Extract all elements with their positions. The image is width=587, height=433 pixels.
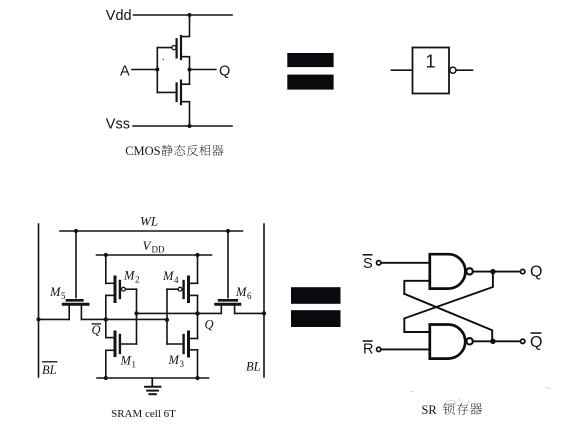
wire M3 drain stub [190, 338, 198, 340]
word line WL [60, 230, 243, 232]
svg-text:1: 1 [425, 51, 435, 71]
ground rail [97, 377, 209, 379]
Vdd rail [134, 14, 233, 16]
logic gate body (1) [413, 48, 450, 94]
svg-text:Q: Q [219, 63, 230, 79]
faint watermark smudge [410, 387, 551, 406]
transistor M6 channel bar [216, 303, 240, 306]
input terminal Sbar [377, 261, 381, 265]
svg-text:3: 3 [180, 359, 185, 369]
wire left inverter rail lower [105, 350, 107, 378]
transistor M5 gate bar [67, 299, 82, 302]
node junction ground left [104, 376, 108, 380]
transistor NMOS N1 channel bar [180, 81, 182, 105]
transistor PMOS P1 channel bar [180, 36, 182, 59]
wire M4 drain stub [190, 294, 198, 296]
svg-text:Q: Q [205, 318, 214, 332]
svg-text:M: M [162, 269, 174, 283]
svg-text:BL: BL [246, 359, 261, 373]
svg-text:2: 2 [135, 275, 140, 285]
node junction WL-M6 [226, 229, 230, 233]
output terminal Qbar [521, 339, 525, 343]
node junction right gates to Qbar line [165, 318, 169, 322]
wire node Q line right segment [235, 312, 264, 314]
wire M2 drain stub [106, 294, 114, 296]
wire Sbar input [382, 262, 430, 264]
wire M6 left stub [220, 306, 222, 314]
node junction BL [262, 311, 266, 315]
svg-text:BL: BL [42, 363, 57, 377]
transistor M1 channel bar [114, 332, 117, 356]
NAND gate U1 bubble [466, 268, 472, 274]
Vss rail [133, 125, 232, 127]
transistor M4 gate bubble [178, 287, 182, 291]
wire NMOS gate to input node [157, 91, 176, 93]
svg-text:Vdd: Vdd [106, 8, 132, 24]
transistor M5 channel bar [63, 303, 88, 306]
output terminal Q [521, 269, 525, 273]
svg-text:SR: SR [422, 403, 438, 417]
transistor M3 channel bar [187, 332, 190, 356]
svg-text:6: 6 [247, 291, 252, 301]
wire M4 source stub [190, 282, 198, 284]
wire M5 left stub [68, 306, 70, 320]
svg-text:M: M [120, 354, 132, 368]
svg-text:Q: Q [530, 334, 542, 351]
wire M5 right stub [80, 306, 82, 320]
wire gate input [391, 69, 412, 71]
svg-text:M: M [123, 269, 135, 283]
node junction left gates to Q line [134, 311, 138, 315]
wire left inverter rail upper [105, 255, 107, 283]
node junction Qbar [104, 317, 108, 321]
transistor M6 gate wire from WL [227, 231, 229, 298]
svg-text:A: A [120, 63, 130, 79]
wire Q output [473, 271, 520, 273]
wire Vdd to PMOS source [182, 15, 190, 37]
wire right inverter rail upper [197, 255, 199, 283]
equals sign upper bar [291, 287, 341, 304]
transistor M2 channel bar [114, 277, 117, 302]
node junction on Vdd [188, 13, 192, 17]
wire output node to NMOS drain [182, 70, 190, 85]
NAND gate U2 bubble [466, 338, 472, 344]
svg-text:5: 5 [61, 291, 66, 301]
wire M1 gate [121, 343, 137, 345]
node junction output Q [188, 68, 192, 72]
wire M1 source stub [106, 349, 114, 351]
transistor M5 gate wire from WL [75, 231, 77, 298]
node junction ground right [195, 376, 199, 380]
svg-text:SRAM cell 6T: SRAM cell 6T [111, 408, 176, 420]
wire M6 right stub [234, 306, 236, 314]
wire cross coupling from Qbar to NAND1 input [404, 294, 492, 342]
wire right gates vertical [166, 289, 168, 344]
wire node Qbar line left segment [39, 318, 70, 320]
node junction input A [155, 68, 159, 72]
wire Qbar output [473, 340, 520, 342]
wire left inverter rail middle [105, 295, 107, 337]
node junction BLbar [36, 317, 40, 321]
svg-text:R: R [363, 342, 373, 358]
node junction VDD left [104, 253, 108, 257]
svg-text:DD: DD [152, 245, 165, 255]
VDD rail [97, 254, 212, 256]
svg-text:1: 1 [132, 360, 137, 370]
transistor M2 gate bar [119, 281, 121, 298]
wire gate output [456, 69, 472, 71]
wire node Q line left segment [137, 312, 222, 314]
wire output Q [190, 69, 216, 71]
transistor M1 gate bar [119, 335, 121, 353]
svg-text:WL: WL [140, 214, 158, 229]
transistor PMOS P1 gate bubble [172, 46, 176, 50]
wire M4 gate [167, 288, 178, 290]
transistor M6 gate bar [219, 299, 237, 302]
wire Rbar input [382, 348, 430, 350]
wire PMOS gate to input node [157, 47, 172, 49]
node junction VDD right [195, 253, 199, 257]
node junction Q [195, 311, 199, 315]
wire right inverter rail lower [197, 350, 199, 378]
wire right inverter rail middle [197, 295, 199, 338]
svg-text:S: S [363, 256, 373, 272]
NAND gate U2 body [430, 325, 465, 359]
node junction on Vss [188, 124, 192, 128]
equals sign lower bar [287, 75, 333, 90]
transistor M4 gate bar [182, 281, 184, 298]
wire M3 source stub [190, 349, 198, 351]
svg-text:Q: Q [92, 323, 101, 337]
node junction WL-M5 [74, 229, 78, 233]
wire node Qbar line right segment [81, 318, 167, 320]
NAND gate U1 body [430, 254, 466, 288]
ground symbol [145, 378, 160, 394]
svg-text:M: M [168, 353, 180, 367]
wire M1 drain stub [106, 337, 114, 339]
node junction Qbar feedback [490, 339, 495, 344]
svg-text:Q: Q [530, 264, 542, 281]
stray mark [163, 59, 165, 61]
wire NAND1 second input [404, 281, 430, 294]
svg-text:4: 4 [174, 275, 179, 285]
transistor M4 channel bar [187, 277, 190, 302]
wire M2 gate [125, 288, 136, 290]
bit line BLbar rail [38, 224, 40, 377]
wire M2 source stub [106, 282, 114, 284]
wire cross coupling from Q to NAND2 input [404, 272, 493, 332]
transistor M2 gate bubble [122, 287, 126, 291]
bit line BL rail [263, 224, 265, 377]
transistor M3 gate bar [182, 335, 184, 353]
wire PMOS drain to output node [182, 57, 190, 70]
svg-text:Vss: Vss [106, 117, 130, 133]
equals sign lower bar [291, 310, 341, 327]
svg-text:CMOS: CMOS [125, 144, 160, 158]
wire NMOS source to Vss [182, 102, 190, 126]
node junction Q feedback [490, 269, 495, 274]
wire input vertical A node [156, 48, 158, 93]
wire M3 gate [167, 343, 183, 345]
svg-text:M: M [49, 285, 61, 299]
logic gate inversion bubble [450, 67, 456, 73]
equals sign upper bar [287, 53, 333, 67]
wire left gates vertical [136, 289, 138, 344]
input terminal Rbar [377, 347, 381, 351]
wire input A [132, 69, 157, 71]
svg-text:M: M [235, 285, 247, 299]
transistor PMOS P1 gate bar [176, 39, 178, 57]
transistor NMOS N1 gate bar [176, 83, 178, 101]
